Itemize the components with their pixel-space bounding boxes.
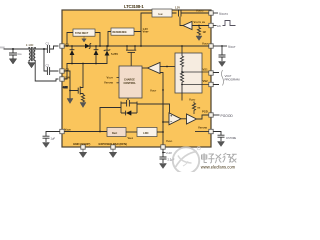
diode rectifier right [94, 46, 99, 64]
capacitor COUT [219, 46, 226, 61]
pin GND (SSOP) [81, 145, 85, 149]
wire SYNC RECT legs [67, 33, 100, 47]
ground under CIN [10, 59, 17, 64]
wire LDO out to VLDO pin [157, 132, 163, 145]
wire A1 to A2 [181, 118, 187, 120]
wire divider bottom [181, 86, 183, 101]
wire divider top [181, 46, 183, 56]
svg-text:1:100: 1:100 [26, 43, 34, 47]
external CAUX [43, 132, 60, 143]
wire C2 gate route [64, 71, 78, 91]
transformer T1 secondary winding [34, 48, 35, 61]
pin EXPOSED PAD (DFN) [111, 145, 115, 149]
pin C1 [60, 44, 64, 48]
wire tap VS2 [182, 84, 209, 86]
resistor R1 divider [180, 56, 183, 68]
svg-text:C1: C1 [46, 42, 50, 46]
svg-text:Rect: Rect [112, 132, 117, 135]
wire lower SW rail [67, 63, 107, 65]
pin VLDO bottom [161, 145, 165, 149]
ground under CSTORE [218, 142, 225, 147]
pin C2 [60, 69, 64, 73]
wire ILIM vertical [141, 13, 152, 46]
wire P2 left down to VAUX net [100, 108, 121, 132]
external VS1 VS2 program brace [213, 73, 219, 85]
wire VOUT2_EN pin to buffer [192, 25, 209, 27]
block resistor divider [175, 53, 202, 93]
svg-text:www.elecfans.com: www.elecfans.com [201, 164, 236, 169]
transistor P2 below charge control [121, 98, 137, 113]
node secondary top junction [43, 48, 45, 50]
svg-text:1M: 1M [197, 108, 200, 110]
svg-text:VOUT: VOUT [228, 45, 236, 49]
pin VOUT [209, 44, 213, 48]
pin PGD [209, 113, 213, 117]
svg-text:ILIM: ILIM [159, 13, 163, 16]
block REFERENCE [111, 28, 134, 35]
wire buffer out to gate [180, 19, 183, 26]
external CSTORE [213, 132, 224, 142]
wire VAUX/VOUT rail [64, 45, 209, 47]
ground gate pulldown [67, 99, 73, 104]
wire VOUT sense input [160, 73, 163, 123]
svg-text:VAUX: VAUX [128, 137, 134, 140]
svg-text:5.25V: 5.25V [111, 52, 118, 56]
ground EXPOSED PAD pin [110, 149, 117, 157]
wire gate pulldown [69, 91, 71, 99]
block POR [107, 128, 126, 137]
resistor pull-up PGOOD [192, 102, 195, 115]
block SYNC RECT U-A [73, 29, 95, 36]
junction dots on rails [66, 45, 68, 47]
buffer VOUT2_EN [183, 22, 192, 30]
zener storage clamp [121, 111, 137, 116]
wire secondary bottom to SW [35, 61, 58, 81]
node VIN-CIN junction [12, 48, 14, 50]
block LDO [137, 128, 157, 137]
wire VIN rail [4, 48, 29, 50]
wire REFERENCE legs [108, 32, 141, 47]
transistor P1 under rail [126, 46, 136, 66]
ground under transformer [28, 63, 35, 68]
capacitor CIN [10, 49, 17, 59]
svg-text:EN: EN [217, 25, 221, 28]
ground under SYNC RECT [82, 36, 86, 42]
external PGOOD [213, 114, 219, 116]
zener 5.25V [104, 46, 110, 64]
svg-text:PGOOD: PGOOD [221, 114, 234, 118]
diode D1 on rail [85, 44, 90, 49]
svg-text:EXPOSED PAD (DFN): EXPOSED PAD (DFN) [99, 142, 128, 146]
svg-text:GND (SSOP): GND (SSOP) [73, 142, 90, 146]
svg-text:LTC3108-1: LTC3108-1 [124, 4, 144, 9]
external VOUT2 label [213, 12, 218, 14]
svg-text:1.2V: 1.2V [175, 6, 180, 9]
resistor VOUT2_EN pulldown [197, 26, 200, 36]
ground under RS [80, 103, 86, 108]
wire A2 to PGD pin [197, 115, 209, 119]
wire POR to LDO [126, 131, 137, 133]
transformer core [31, 48, 32, 61]
external VOUT2_EN waveform [213, 25, 216, 27]
watermark chinese text [202, 153, 237, 163]
svg-text:2.2V: 2.2V [166, 151, 172, 155]
ground under CAUX [43, 143, 50, 148]
wire VAUX chain [64, 131, 107, 133]
svg-text:1µF: 1µF [51, 137, 56, 141]
IC body LTC3108-1 [62, 10, 211, 147]
pin VOUT2 [209, 11, 213, 15]
svg-text:LDO: LDO [143, 132, 148, 135]
ground under COUT [219, 62, 226, 67]
buffer A2 pgood [187, 114, 197, 124]
wire tap VS1 [182, 68, 209, 72]
wire A1 lower input [163, 90, 169, 132]
svg-text:VOUT2: VOUT2 [219, 12, 228, 16]
transistor main switch N1 [78, 64, 83, 95]
ground GND pin [80, 149, 87, 157]
wire primary top [29, 48, 44, 50]
op-amp T1 charge comparator [148, 63, 161, 74]
diode rectifier left [70, 46, 75, 64]
pin VS1 [209, 71, 213, 75]
svg-text:PROGRAM: PROGRAM [225, 78, 241, 82]
svg-text:VS1: VS1 [203, 68, 209, 72]
svg-text:1M: 1M [203, 32, 206, 34]
wire comparator input to divider [160, 66, 175, 68]
svg-text:C2: C2 [46, 64, 50, 68]
pin SW [60, 77, 64, 81]
ground under VLDO cap [160, 164, 167, 169]
resistor RS [81, 95, 84, 103]
svg-text:0.5M: 0.5M [63, 87, 68, 89]
svg-text:VS2: VS2 [203, 79, 209, 83]
capacitor C2 [44, 49, 58, 75]
wire VSTORE stub [195, 131, 209, 133]
resistor R2 divider [180, 72, 183, 85]
transformer T1 primary winding [29, 48, 30, 61]
svg-text:CONTROL: CONTROL [124, 82, 137, 85]
watermark logo circle [173, 147, 201, 174]
svg-text:SYNC RECT: SYNC RECT [75, 33, 89, 35]
svg-text:PGD: PGD [202, 110, 208, 114]
wire P2 right rail to comparator [137, 104, 170, 113]
block ILIM [152, 9, 172, 17]
external VLDO output [160, 149, 167, 163]
wire primary bottom to ground [28, 61, 30, 63]
wire SW pin link [64, 64, 67, 80]
capacitor C1 [44, 46, 58, 53]
pin VS2 [209, 82, 213, 86]
op-amp A1 pgood [169, 113, 181, 125]
external VOUT net [213, 45, 227, 47]
transistor P3 VOUT2 switch [172, 10, 209, 20]
block CHARGE CONTROL [119, 66, 142, 98]
pin VAUX left [60, 129, 64, 133]
svg-text:REFERENCE: REFERENCE [113, 32, 128, 34]
pin VSTORE [209, 129, 213, 133]
pin VOUT2_EN [209, 23, 213, 27]
